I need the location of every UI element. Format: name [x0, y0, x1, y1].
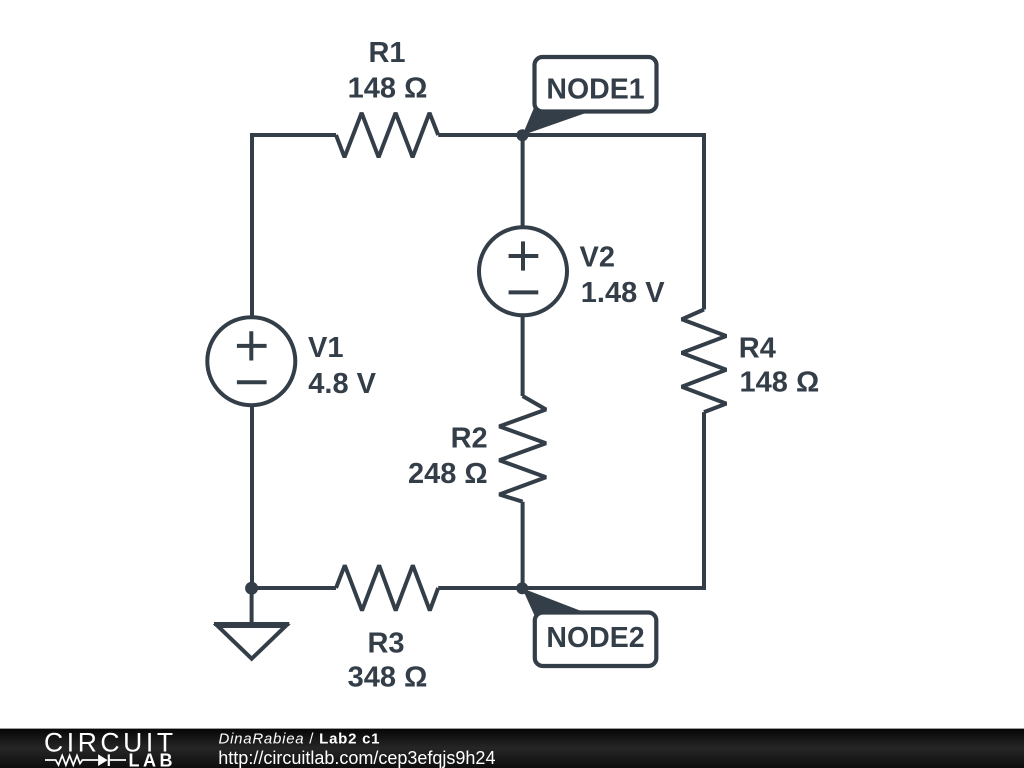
svg-text:http://circuitlab.com/cep3efqj: http://circuitlab.com/cep3efqjs9h24 [218, 748, 495, 768]
svg-text:1.48 V: 1.48 V [581, 277, 665, 309]
svg-text:NODE1: NODE1 [546, 73, 644, 105]
svg-text:DinaRabiea / Lab2 c1: DinaRabiea / Lab2 c1 [219, 731, 381, 748]
svg-text:R1: R1 [368, 37, 405, 69]
svg-text:LAB: LAB [129, 750, 177, 768]
svg-text:NODE2: NODE2 [546, 622, 644, 654]
svg-text:V1: V1 [308, 332, 343, 364]
svg-text:R2: R2 [451, 423, 488, 455]
svg-text:4.8 V: 4.8 V [308, 368, 376, 400]
svg-text:148 Ω: 148 Ω [740, 366, 820, 398]
svg-text:248 Ω: 248 Ω [408, 458, 488, 490]
svg-text:V2: V2 [580, 242, 615, 274]
svg-text:R3: R3 [367, 628, 404, 660]
svg-text:348 Ω: 348 Ω [348, 662, 428, 694]
svg-text:148 Ω: 148 Ω [348, 72, 428, 104]
svg-text:R4: R4 [739, 333, 776, 365]
